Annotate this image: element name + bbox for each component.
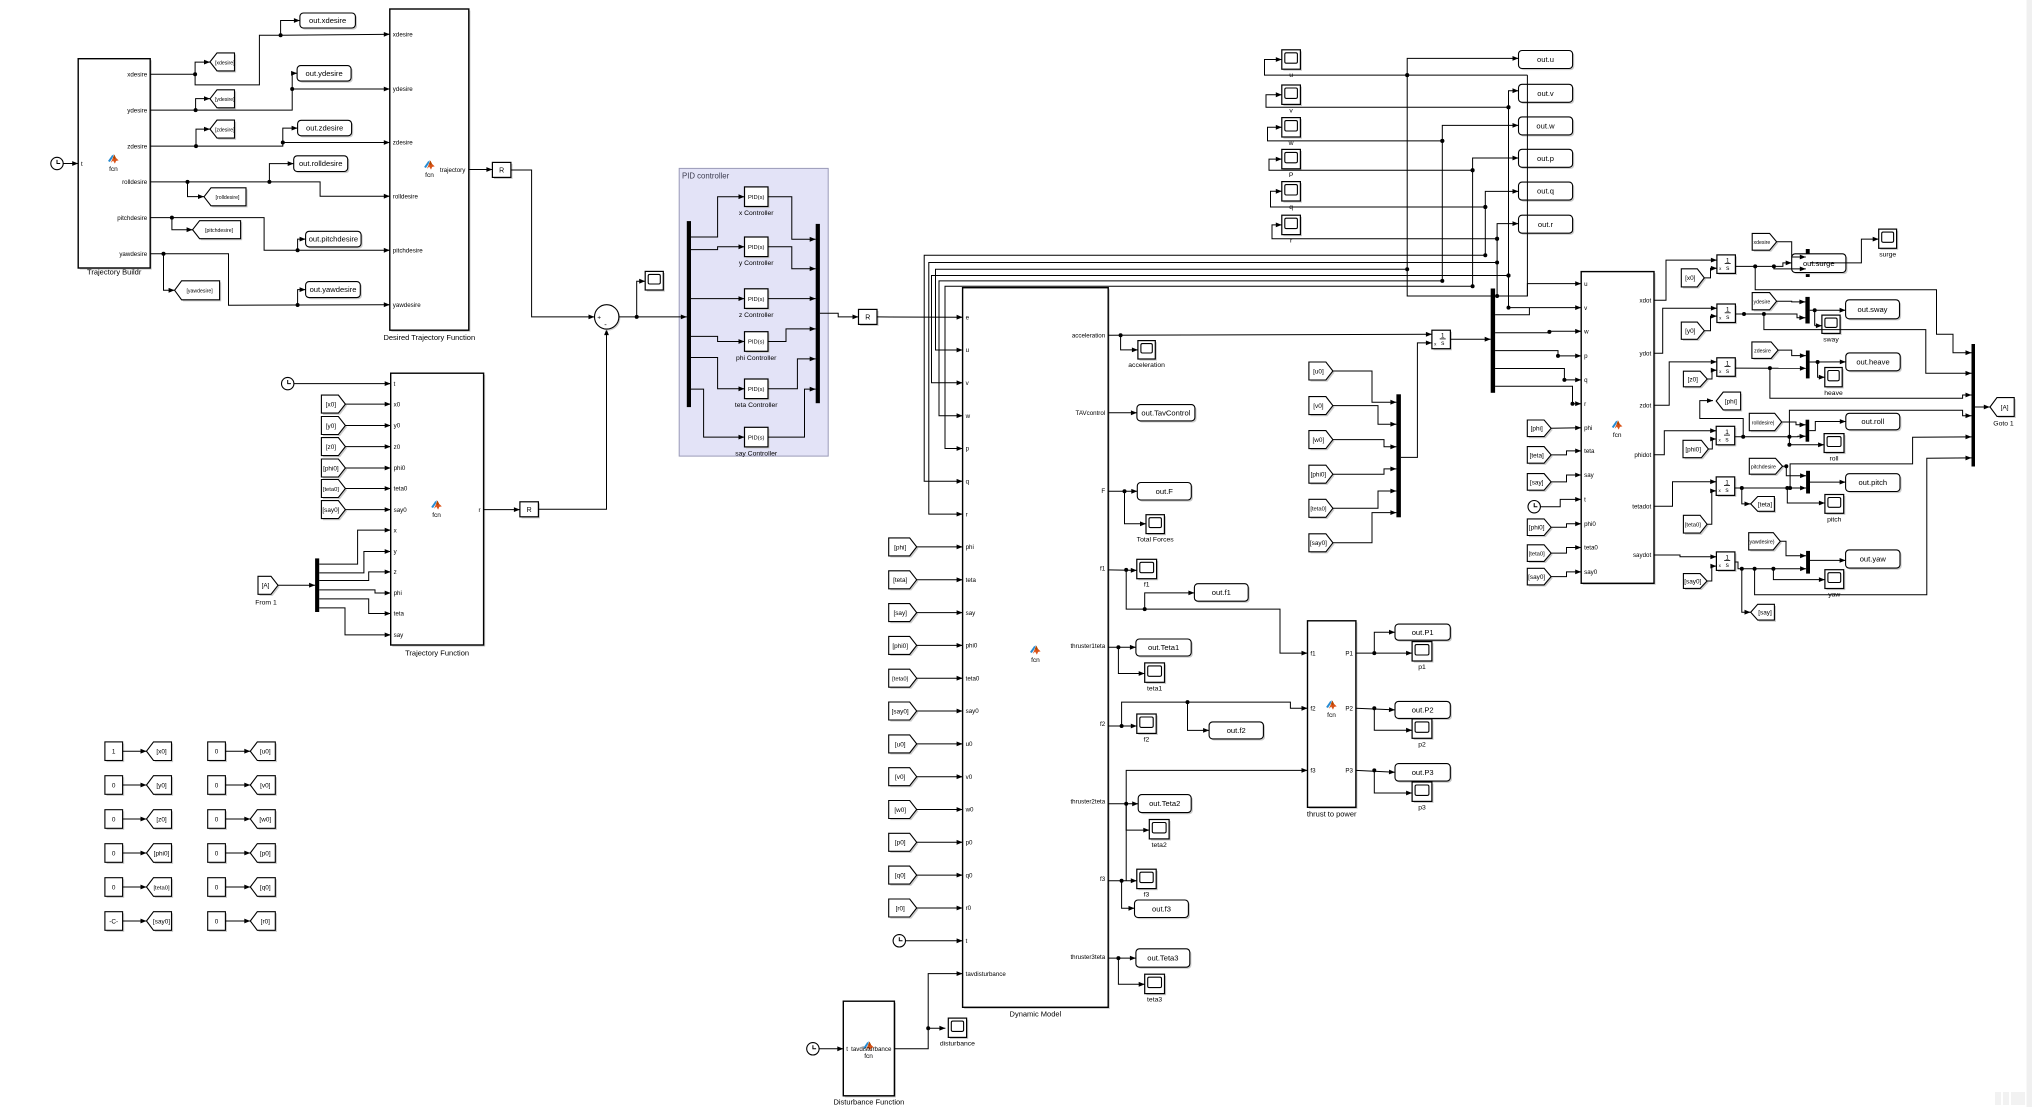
svg-text:u0: u0	[966, 741, 973, 748]
scope P	[1283, 151, 1302, 170]
from tag [xdesire]	[1754, 235, 1778, 252]
svg-text:[u0]: [u0]	[895, 741, 906, 748]
constant 0 feeding goto [w0]	[209, 811, 227, 830]
PID block x Controller	[746, 189, 770, 209]
constant 0 feeding goto [r0]	[209, 913, 227, 932]
svg-text:0: 0	[215, 884, 219, 891]
wire demux out5 to fcn q input	[1495, 369, 1581, 380]
constant 0 feeding goto [teta0]	[107, 879, 125, 898]
wire q vertical continuation	[1484, 207, 1486, 255]
wire [teta0] to integrator5 x0	[1707, 491, 1716, 524]
svg-text:[teta0]: [teta0]	[1685, 523, 1702, 529]
scope p2	[1414, 721, 1434, 740]
svg-text:[say0]: [say0]	[1310, 540, 1327, 547]
wire zdot to integrator3	[1654, 362, 1717, 405]
svg-text:1: 1	[112, 749, 116, 756]
constant 0 feeding goto [q0]	[209, 879, 227, 898]
svg-text:phi: phi	[1584, 425, 1592, 432]
svg-text:[teta0]: [teta0]	[892, 677, 909, 683]
svg-text:say0: say0	[966, 708, 980, 715]
svg-text:teta: teta	[394, 611, 405, 618]
svg-text:say: say	[394, 632, 405, 639]
wire integrator4 out to roll mux	[1735, 435, 1806, 438]
svg-text:yawdesire: yawdesire	[393, 302, 421, 309]
svg-text:tavdisturbance: tavdisturbance	[851, 1046, 892, 1053]
from tag [teta0] (initial condition)	[1311, 501, 1335, 519]
svg-text:out.pitchdesire: out.pitchdesire	[309, 235, 358, 244]
wire constant to [v0]	[225, 784, 250, 786]
outport out.P1	[1397, 626, 1452, 642]
goto block R (trajectory)	[494, 164, 513, 179]
svg-text:out.Teta1: out.Teta1	[1148, 643, 1179, 652]
PID controller area	[679, 168, 828, 456]
from tag [v0] (initial condition)	[1311, 398, 1335, 416]
wire branch to out.p	[1473, 158, 1519, 170]
svg-text:phi: phi	[966, 544, 974, 551]
wire phi Controller to mux	[768, 329, 816, 342]
wire constant to [x0]	[123, 750, 147, 752]
scrollbar right	[2027, 0, 2032, 1107]
wire P1 to out.P1 and scope p1	[1356, 652, 1412, 654]
svg-text:r: r	[966, 511, 968, 518]
mux sway	[1805, 297, 1809, 324]
integrator 1/s (say)	[1718, 554, 1737, 573]
outport out.Teta1	[1138, 641, 1193, 658]
PID block y Controller	[746, 239, 770, 259]
outport out.ydesire	[299, 67, 353, 83]
wire xdot to integrator1	[1654, 260, 1717, 300]
svg-text:teta3: teta3	[1147, 997, 1162, 1004]
svg-text:PID(s): PID(s)	[748, 387, 764, 393]
svg-text:0: 0	[215, 782, 219, 789]
goto block R (control)	[860, 311, 879, 326]
svg-text:pitch: pitch	[1827, 516, 1842, 523]
scope pitch	[1827, 496, 1846, 515]
svg-text:fcn: fcn	[425, 172, 434, 179]
goto tag [p0]	[252, 845, 277, 864]
svg-text:teta: teta	[966, 577, 977, 584]
wire demux to Trajectory Function input	[319, 572, 391, 581]
block Disturbance Function (MATLAB Function)	[845, 1003, 896, 1098]
from tag [zdesire]	[1754, 344, 1780, 361]
wire [u0] to mux	[1333, 371, 1397, 402]
scope p1	[1414, 643, 1434, 662]
svg-text:u: u	[1584, 281, 1588, 288]
scope Total Forces	[1148, 516, 1166, 535]
wire [q0] to port	[917, 874, 963, 876]
goto tag [pitchdesire]	[194, 222, 242, 240]
svg-text:fcn: fcn	[1613, 432, 1622, 439]
goto tag [v0]	[252, 777, 277, 796]
from tag [q0] feeding Dynamic Model	[890, 868, 918, 886]
outport out.yaw	[1847, 552, 1901, 570]
from tag [u0] feeding Dynamic Model	[890, 737, 918, 755]
svg-text:Disturbance Function: Disturbance Function	[833, 1098, 904, 1107]
svg-text:r: r	[478, 507, 480, 514]
svg-text:[teta0]: [teta0]	[1529, 552, 1546, 558]
from tag [rolldesire]	[1751, 415, 1783, 432]
wire xdesire into surge mux (over block)	[1792, 256, 1806, 258]
goto tag [z0]	[148, 811, 173, 830]
wire [phi0] to port	[917, 644, 963, 646]
outport out.roll	[1847, 415, 1901, 432]
outport out.f2	[1211, 724, 1265, 741]
outport out.pitchdesire	[307, 233, 363, 249]
svg-text:e: e	[966, 314, 970, 321]
svg-text:[x0]: [x0]	[326, 402, 337, 409]
wire u stair vertical	[1526, 75, 1528, 296]
svg-text:P: P	[1289, 172, 1294, 179]
svg-text:[say0]: [say0]	[1684, 578, 1701, 585]
svg-text:TAVcontrol: TAVcontrol	[1076, 410, 1106, 417]
svg-text:f1: f1	[1144, 582, 1150, 589]
svg-text:xdesire: xdesire	[127, 71, 148, 78]
wire [z0] to integrator3 x0	[1707, 370, 1717, 379]
scope teta3	[1146, 976, 1166, 995]
wire saydot to integrator6	[1654, 555, 1716, 557]
wire [say] to port	[1551, 475, 1581, 482]
svg-text:fcn: fcn	[864, 1053, 873, 1060]
wire demux to Trajectory Function input	[319, 608, 391, 635]
wire acceleration output to integrator and scope	[1108, 333, 1432, 336]
wire F to out.F and Total Forces scope	[1108, 490, 1137, 492]
from tag [phi] feeding Dynamic Model	[890, 540, 918, 558]
outport out.xdesire	[302, 15, 358, 30]
constant 0 feeding goto [phi0]	[107, 845, 125, 864]
wire branch to out.w	[1442, 125, 1518, 140]
wire roll branch to collector	[1789, 410, 1971, 437]
scope f1	[1138, 561, 1158, 580]
outport out.q	[1520, 184, 1574, 202]
svg-text:trajectory: trajectory	[440, 167, 466, 174]
wire zdesire to tag and out.zdesire and DTF	[150, 129, 210, 146]
outport out.w	[1520, 119, 1574, 137]
svg-text:r: r	[1584, 401, 1586, 408]
wire From1 to demux	[278, 584, 315, 586]
svg-text:out.rolldesire: out.rolldesire	[299, 159, 342, 168]
block Dynamic Model (MATLAB Function)	[964, 289, 1110, 1009]
wire heave branch to collector	[1770, 368, 1972, 398]
from tag [teta0] feeding Dynamic Model	[890, 671, 918, 689]
from tag [phi0] (initial condition)	[1311, 467, 1335, 485]
goto tag [ydesire]	[212, 91, 237, 109]
integrator 1/s (x)	[1719, 257, 1738, 276]
svg-text:y Controller: y Controller	[739, 260, 774, 267]
wire v down and across to Dynamic Model	[932, 276, 1509, 383]
wire long run w	[1268, 127, 1443, 141]
svg-text:[teta]: [teta]	[1530, 452, 1544, 459]
svg-text:0: 0	[112, 816, 116, 823]
wire u down and across to Dynamic Model	[936, 269, 1408, 350]
svg-text:disturbance: disturbance	[940, 1040, 975, 1047]
wire Clock3 to Disturbance Function	[819, 1048, 843, 1050]
svg-text:PID(s): PID(s)	[748, 435, 764, 441]
svg-text:u: u	[966, 347, 970, 354]
svg-text:out.r: out.r	[1538, 220, 1554, 229]
svg-text:[phi0]: [phi0]	[1529, 525, 1545, 532]
wire integrator4 out to [phi]	[1700, 401, 1743, 437]
scope heave	[1826, 369, 1843, 388]
svg-text:rolldesire: rolldesire	[393, 193, 419, 200]
outport out.P3	[1397, 765, 1452, 783]
svg-text:[phi0]: [phi0]	[154, 850, 170, 857]
wire [phi] to port	[1551, 427, 1581, 430]
wire [x0] to integrator1 x0	[1704, 268, 1717, 278]
svg-text:[w0]: [w0]	[259, 816, 271, 823]
svg-text:[A]: [A]	[262, 583, 270, 590]
wire constant to [r0]	[225, 920, 250, 922]
wire [teta] to port	[1551, 451, 1581, 455]
svg-text:r0: r0	[966, 905, 972, 912]
goto tag [yawdesire]	[176, 282, 221, 301]
wire [rolldesire] to roll mux	[1782, 422, 1806, 425]
from tag [teta] feeding Dynamic Model	[890, 572, 918, 590]
wire long run P	[1269, 159, 1473, 170]
svg-text:0: 0	[215, 918, 219, 925]
svg-text:[teta]: [teta]	[1758, 501, 1772, 508]
clock source Clock4	[893, 935, 905, 947]
svg-text:[r0]: [r0]	[261, 918, 270, 925]
from tag [x0] IC	[1683, 270, 1706, 288]
svg-text:thrust to power: thrust to power	[1307, 810, 1357, 819]
svg-text:u: u	[1289, 72, 1293, 79]
wire thruster3teta to out.Teta3 and scope teta3	[1108, 957, 1136, 959]
svg-text:phi0: phi0	[394, 465, 406, 472]
svg-text:t: t	[81, 161, 83, 168]
wire r vertical continuation	[1496, 239, 1498, 296]
svg-text:[phi]: [phi]	[1725, 398, 1737, 405]
svg-text:zdesire: zdesire	[1754, 349, 1771, 355]
svg-text:say0: say0	[1584, 569, 1598, 576]
goto tag [A] Goto 1	[1992, 399, 2016, 418]
wire [zdesire] to heave mux	[1778, 350, 1806, 356]
svg-text:t: t	[966, 938, 968, 945]
block 6dof function (MATLAB Function)	[1583, 273, 1656, 585]
PID block z Controller	[746, 290, 770, 310]
wire y Controller to mux	[768, 247, 816, 269]
demux of Trajectory Function inputs	[315, 558, 319, 612]
svg-text:[y0]: [y0]	[326, 423, 337, 430]
svg-text:[say0]: [say0]	[892, 708, 909, 715]
wire ydesire to tag and out.ydesire and DTF	[150, 99, 210, 111]
svg-text:f2: f2	[1310, 706, 1316, 713]
svg-text:+: +	[597, 315, 601, 322]
wire heave mux to out.heave and scope heave	[1810, 361, 1846, 363]
svg-text:PID(s): PID(s)	[748, 245, 764, 251]
svg-text:roll: roll	[1829, 456, 1839, 463]
wire R to Dynamic Model e input	[877, 316, 963, 318]
scope f2	[1138, 716, 1157, 735]
from tag [say0]	[323, 502, 347, 520]
svg-text:[u0]: [u0]	[260, 749, 271, 756]
wire roll mux to out.roll and scope roll	[1809, 422, 1846, 431]
wire x Controller to mux	[768, 197, 816, 240]
wire [phi0] to mux	[1333, 469, 1397, 474]
constant 0 feeding goto [z0]	[107, 811, 125, 830]
wire ydot to integrator2	[1654, 308, 1717, 353]
wire demux to Trajectory Function input	[319, 599, 391, 614]
svg-text:[x0]: [x0]	[1685, 275, 1696, 282]
scope teta2	[1151, 821, 1171, 840]
wire branch to out.v	[1509, 91, 1519, 108]
wire integrator1 out to out.surge / mux / collector	[1736, 263, 1792, 267]
wire branch to [teta]	[1742, 488, 1751, 504]
goto tag [y0]	[148, 777, 173, 796]
from tag [phi] feeding 6dof fcn	[1529, 422, 1553, 439]
svg-text:yawdesire: yawdesire	[119, 251, 147, 258]
constant 0 feeding goto [u0]	[209, 744, 227, 763]
from tag [w0] (initial condition)	[1311, 432, 1335, 450]
block Desired Trajectory Function (MATLAB Function)	[391, 11, 470, 332]
svg-text:say0: say0	[394, 507, 408, 514]
svg-text:phi Controller: phi Controller	[736, 355, 777, 362]
svg-text:-C-: -C-	[109, 918, 118, 925]
wire branch to scope yaw	[1773, 569, 1825, 580]
wire branch to out.u	[1407, 58, 1518, 75]
outport out.rolldesire	[295, 157, 349, 173]
wire constant to [q0]	[225, 886, 250, 888]
wire constant to [y0]	[123, 784, 147, 786]
wire collector to [A]	[1975, 406, 1990, 408]
svg-text:thruster2teta: thruster2teta	[1070, 799, 1105, 806]
svg-text:Desired Trajectory Function: Desired Trajectory Function	[383, 333, 475, 342]
from tag [phi0] feeding Dynamic Model	[890, 638, 918, 656]
svg-text:[A]: [A]	[2001, 404, 2009, 411]
svg-text:P1: P1	[1345, 650, 1353, 657]
svg-text:out.roll: out.roll	[1861, 417, 1884, 426]
PID block say Controller	[746, 429, 770, 449]
svg-text:z Controller: z Controller	[739, 312, 774, 319]
integrator 1/s (z)	[1718, 359, 1737, 378]
svg-text:[v0]: [v0]	[1313, 403, 1324, 410]
svg-text:saydot: saydot	[1633, 552, 1652, 559]
wire demux to x Controller	[691, 197, 745, 237]
svg-text:[z0]: [z0]	[326, 444, 337, 451]
wire integrator6 out to yaw mux	[1735, 562, 1806, 569]
svg-text:zdesire: zdesire	[127, 143, 148, 150]
scope teta1	[1146, 665, 1166, 684]
constant -C- feeding goto [say0]	[107, 913, 125, 932]
wire constant to [u0]	[225, 750, 250, 752]
wire u vertical continuation	[1407, 75, 1495, 296]
wire [y0] to Trajectory Function	[345, 425, 390, 427]
svg-text:[w0]: [w0]	[1313, 437, 1325, 444]
svg-text:xdot: xdot	[1639, 297, 1651, 304]
svg-text:0: 0	[215, 850, 219, 857]
wire [phi] to port	[917, 546, 963, 548]
wire integrator2 out to sway mux	[1736, 314, 1806, 318]
wire integrator5 out to pitch mux	[1735, 487, 1806, 489]
wire R down to Sum	[511, 170, 595, 317]
from tag [say] feeding 6dof fcn	[1529, 475, 1553, 492]
outport out.r	[1520, 217, 1574, 235]
wire demux to z Controller	[691, 298, 745, 300]
outport out.p	[1520, 151, 1574, 169]
svg-text:acceleration: acceleration	[1072, 332, 1106, 339]
outport out.f1	[1196, 585, 1250, 603]
wire w vertical continuation	[1441, 141, 1443, 281]
svg-text:q0: q0	[966, 872, 973, 879]
svg-text:ydot: ydot	[1639, 350, 1651, 357]
svg-text:[v0]: [v0]	[895, 774, 906, 781]
from tag [p0] feeding Dynamic Model	[890, 835, 918, 853]
svg-text:say: say	[966, 610, 977, 617]
svg-text:[y0]: [y0]	[156, 782, 167, 789]
wire [xdesire] to surge mux	[1777, 242, 1792, 257]
wire r to R	[484, 509, 520, 511]
scope surge	[1880, 231, 1898, 250]
wire pitchdesire to tag, out.pitchdesire and DTF	[150, 218, 192, 230]
svg-text:y0: y0	[394, 423, 401, 430]
wire constant to [phi0]	[123, 852, 147, 854]
outport out.Teta3	[1138, 950, 1192, 968]
svg-text:fcn: fcn	[109, 166, 118, 173]
svg-text:fcn: fcn	[432, 512, 441, 519]
mux of initial conditions	[1396, 394, 1401, 517]
from tag [A] From 1	[260, 578, 280, 596]
svg-text:z: z	[394, 569, 397, 576]
svg-text:[r0]: [r0]	[896, 905, 905, 912]
wire P3 to out.P3 and scope p3	[1356, 770, 1395, 772]
wire branch to scope pitch	[1787, 488, 1825, 503]
wire [u0] to port	[917, 743, 963, 745]
svg-text:[xdesire]: [xdesire]	[215, 60, 235, 66]
svg-text:[phi0]: [phi0]	[1311, 472, 1327, 479]
wire [say0] to mux	[1333, 513, 1397, 543]
wire [teta0] to port	[1551, 548, 1581, 554]
wire say Controller to mux	[768, 389, 816, 437]
wire p down and across to Dynamic Model	[945, 286, 1473, 448]
svg-text:PID(s): PID(s)	[748, 297, 764, 303]
scope r	[1283, 217, 1302, 236]
PID mux	[816, 224, 820, 403]
svg-text:f2: f2	[1144, 736, 1150, 743]
svg-text:p: p	[1584, 353, 1588, 360]
svg-text:teta0: teta0	[966, 675, 980, 682]
svg-text:f3: f3	[1310, 768, 1316, 775]
svg-text:0: 0	[215, 816, 219, 823]
svg-text:p: p	[966, 446, 970, 453]
outport out.zdesire	[299, 122, 353, 137]
svg-text:[v0]: [v0]	[260, 782, 271, 789]
svg-text:[phi0]: [phi0]	[1685, 446, 1701, 453]
svg-text:t: t	[846, 1046, 848, 1053]
from tag [teta] feeding 6dof fcn	[1529, 448, 1553, 465]
svg-text:PID controller: PID controller	[682, 172, 730, 181]
svg-text:[p0]: [p0]	[895, 840, 906, 847]
wire pitch mux to out.pitch	[1810, 481, 1846, 483]
wire [p0] to port	[917, 841, 963, 843]
svg-text:say: say	[1584, 472, 1595, 479]
wire demux out3 to fcn w input	[1495, 331, 1581, 332]
from tag [r0] feeding Dynamic Model	[890, 901, 918, 919]
wire P2 to out.P2 and scope p2	[1356, 708, 1395, 710]
PID demux	[687, 221, 691, 407]
svg-text:ydesire: ydesire	[127, 107, 148, 114]
wire tavdisturbance to Dynamic Model and scope	[894, 974, 962, 1049]
svg-text:[x0]: [x0]	[156, 749, 167, 756]
svg-text:[say0]: [say0]	[153, 918, 170, 925]
svg-text:phi0: phi0	[1584, 521, 1596, 528]
svg-text:phidot: phidot	[1634, 452, 1651, 459]
svg-text:tetadot: tetadot	[1632, 503, 1651, 510]
svg-text:[yawdesire]: [yawdesire]	[186, 289, 213, 295]
svg-text:[say]: [say]	[1530, 479, 1544, 486]
scope u	[1283, 51, 1302, 70]
svg-text:zdot: zdot	[1639, 403, 1651, 410]
block Trajectory Function (MATLAB Function)	[392, 375, 485, 647]
svg-text:thruster3teta: thruster3teta	[1070, 954, 1105, 961]
